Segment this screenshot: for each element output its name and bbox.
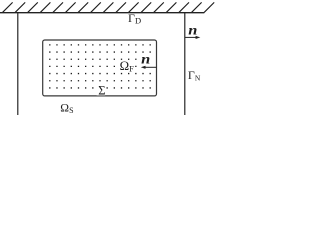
outer n arrow bbox=[185, 36, 197, 38]
left wall line bbox=[17, 13, 19, 116]
svg-text:n: n bbox=[141, 52, 150, 68]
inner n arrow bbox=[145, 66, 157, 68]
right wall line (Gamma_N boundary) bbox=[184, 13, 186, 116]
normal vector n (inner, pointing left into fluid) bbox=[141, 52, 150, 68]
white backing for inner n label bbox=[141, 54, 154, 69]
normal vector n (outer, pointing right from Gamma_N wall) bbox=[188, 23, 197, 39]
ceiling line (Gamma_D boundary) bbox=[0, 12, 204, 14]
hatching above ceiling bbox=[2, 2, 214, 12]
fluid rectangle Omega_F border bbox=[43, 40, 157, 96]
svg-text:Σ: Σ bbox=[98, 84, 105, 98]
svg-text:n: n bbox=[188, 23, 197, 39]
white backing for Omega_F label bbox=[119, 61, 133, 72]
white backing for Sigma label bbox=[97, 86, 106, 95]
dot grid inside Omega_F bbox=[49, 44, 151, 88]
